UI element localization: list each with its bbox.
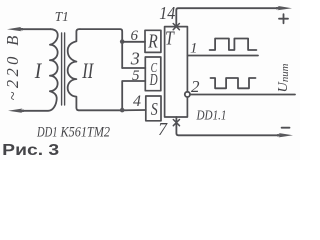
wire: secondary bottom lead to node B and pin 4 S input (79, 109, 146, 111)
svg-text:4: 4 (133, 93, 141, 110)
svg-text:Uпит: Uпит (276, 63, 291, 92)
wire: pin 7 to minus rail (176, 117, 279, 135)
R input cell (145, 30, 161, 52)
svg-text:~220 В: ~220 В (3, 32, 22, 100)
plus sign (279, 14, 288, 23)
S input cell (146, 96, 161, 121)
wire: pin 6 to R input (122, 41, 145, 43)
wire: secondary top lead to node A (80, 29, 122, 68)
svg-text:T: T (165, 28, 175, 50)
terminal arrow: mains input bottom (8, 109, 24, 113)
wire: pin 1 direct output (188, 55, 259, 57)
wire: mains bottom lead (20, 110, 23, 112)
svg-text:I: I (34, 58, 43, 83)
svg-text:D: D (149, 70, 158, 89)
waveform: direct output meander (210, 39, 257, 51)
wire: pin 2 inverse output (190, 94, 295, 96)
svg-text:2: 2 (191, 77, 200, 96)
terminal arrow: minus output (277, 133, 293, 137)
wire: pin 3 to C input (122, 67, 145, 69)
transformer core (62, 33, 65, 105)
svg-text:Рис. 3: Рис. 3 (2, 142, 59, 159)
pin 7 power cross mark (173, 120, 179, 126)
wire: pin 14 to plus rail (176, 8, 277, 26)
pin 14 power cross mark (173, 24, 179, 30)
svg-text:3: 3 (130, 49, 140, 69)
svg-text:1: 1 (190, 41, 198, 57)
svg-text:14: 14 (159, 3, 175, 23)
terminal arrow: plus output (276, 6, 292, 10)
svg-text:6: 6 (131, 28, 139, 44)
C D input cell (145, 57, 161, 91)
IC DD1.1 main box (165, 27, 188, 117)
terminal arrow: mains input top (7, 27, 23, 31)
node A junction dot (120, 39, 125, 44)
node B junction dot (120, 108, 125, 113)
transformer T1 primary winding I (23, 29, 58, 111)
transformer T1 secondary winding II (68, 29, 80, 110)
svg-text:II: II (81, 58, 94, 83)
minus sign (282, 127, 290, 129)
svg-text:S: S (151, 99, 158, 119)
wire: pin 5 to D input from node B (122, 81, 145, 110)
inversion circle pin 2 (185, 92, 190, 97)
wire: mains top lead to transformer primary (20, 28, 51, 30)
svg-text:R: R (147, 31, 157, 53)
svg-text:DD1.1: DD1.1 (196, 107, 227, 122)
svg-text:7: 7 (158, 119, 168, 139)
svg-text:Т1: Т1 (55, 9, 69, 24)
svg-text:DD1: DD1 (36, 125, 57, 141)
waveform: inverse output meander (211, 78, 256, 88)
svg-text:К561ТМ2: К561ТМ2 (60, 125, 111, 141)
svg-text:5: 5 (132, 68, 140, 84)
